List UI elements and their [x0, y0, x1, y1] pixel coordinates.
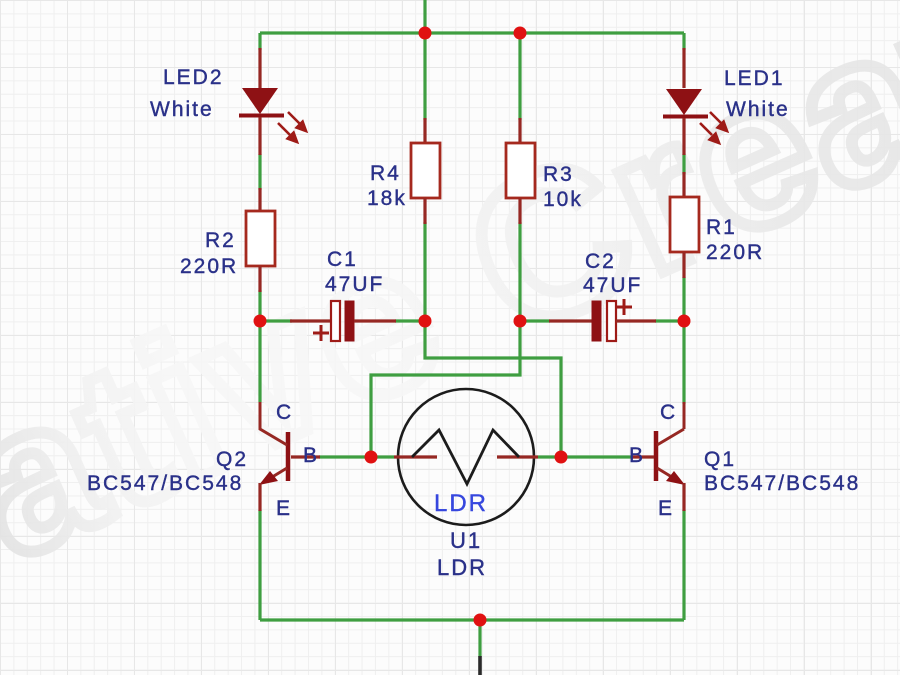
wire LED1 to R1 — [682, 154, 685, 174]
node C1 left — [254, 315, 267, 328]
wire node to C2 left — [520, 319, 550, 322]
svg-text:White: White — [150, 98, 214, 121]
LDR U1 — [394, 389, 538, 525]
wire top rail — [260, 31, 684, 34]
wire node to Q1 base — [538, 455, 632, 458]
wire bottom rail — [260, 618, 684, 621]
svg-text:White: White — [726, 98, 790, 121]
node C1 right — [419, 315, 432, 328]
wire LED2 top — [258, 33, 261, 50]
transistor Q2 — [259, 402, 320, 511]
wire R3 top drop — [518, 33, 521, 120]
node bottom — [474, 614, 487, 627]
LED LED1 — [663, 48, 727, 155]
svg-text:47UF: 47UF — [325, 273, 384, 296]
wire R3 bottom to node — [518, 222, 521, 321]
svg-text:C: C — [276, 401, 293, 424]
svg-text:Q2: Q2 — [216, 448, 248, 471]
LED LED2 — [239, 48, 306, 155]
wire cross B C2 node to Q2 base node — [371, 321, 520, 457]
svg-text:C: C — [660, 401, 677, 424]
svg-text:B: B — [303, 444, 319, 467]
node C2 right — [678, 315, 691, 328]
capacitor C2 — [549, 299, 656, 341]
node Q1 base — [555, 451, 568, 464]
wire bottom stub black — [478, 656, 482, 675]
LDR zigzag — [412, 430, 519, 484]
wire node to Q2 collector — [258, 321, 261, 402]
wire C1 right to node — [395, 319, 425, 322]
transistor Q1 — [631, 402, 685, 511]
wire node to C1 left — [260, 319, 292, 322]
svg-text:R2: R2 — [205, 229, 236, 252]
node C2 left — [514, 315, 527, 328]
node top R3 — [514, 27, 527, 40]
svg-text:E: E — [276, 497, 292, 520]
svg-text:18k: 18k — [367, 187, 407, 210]
svg-text:E: E — [658, 497, 674, 520]
wire bottom stub — [478, 620, 481, 657]
svg-text:Q1: Q1 — [704, 448, 736, 471]
wire Q1 emitter down — [682, 510, 685, 620]
wire LED1 top — [682, 33, 685, 50]
wire top stub to edge — [423, 0, 426, 33]
svg-text:220R: 220R — [180, 255, 238, 278]
wire R4 top drop — [423, 33, 426, 120]
svg-text:U1: U1 — [450, 528, 482, 553]
C1 plus sign — [313, 325, 329, 341]
svg-text:LED2: LED2 — [163, 66, 224, 89]
svg-text:R1: R1 — [706, 216, 737, 239]
svg-text:C2: C2 — [585, 250, 616, 273]
resistor R4 — [411, 118, 440, 224]
resistor R1 — [670, 172, 699, 278]
C2 plus sign — [616, 299, 632, 315]
svg-text:R4: R4 — [370, 162, 401, 185]
node Q2 base — [365, 451, 378, 464]
svg-text:LED1: LED1 — [724, 67, 785, 90]
wire C2 right to node — [655, 319, 684, 322]
resistor R2 — [246, 188, 275, 292]
svg-text:C1: C1 — [327, 248, 358, 271]
wire Q2 emitter down — [258, 510, 261, 620]
svg-text:BC547/BC548: BC547/BC548 — [704, 472, 860, 495]
node top R4 — [419, 27, 432, 40]
svg-text:10k: 10k — [543, 188, 583, 211]
svg-text:B: B — [629, 444, 645, 467]
wire cross A C1 node to Q1 base node — [425, 321, 561, 457]
resistor R3 — [506, 118, 535, 224]
wire R1 to node — [682, 277, 685, 321]
capacitor C1 — [290, 301, 396, 341]
LED1 light arrows — [700, 112, 727, 143]
wire R4 bottom to node — [423, 222, 426, 321]
svg-text:LDR: LDR — [437, 555, 487, 580]
svg-text:LDR: LDR — [434, 490, 488, 517]
svg-text:47UF: 47UF — [583, 274, 642, 297]
svg-text:R3: R3 — [543, 163, 574, 186]
LED2 light arrows — [278, 112, 306, 142]
wire LED2 to R2 — [258, 154, 261, 190]
svg-text:BC547/BC548: BC547/BC548 — [87, 472, 243, 495]
svg-text:220R: 220R — [706, 241, 764, 264]
wire Q2 base to node — [319, 455, 394, 458]
wire R2 to node — [258, 290, 261, 321]
wire node to Q1 collector — [682, 321, 685, 404]
